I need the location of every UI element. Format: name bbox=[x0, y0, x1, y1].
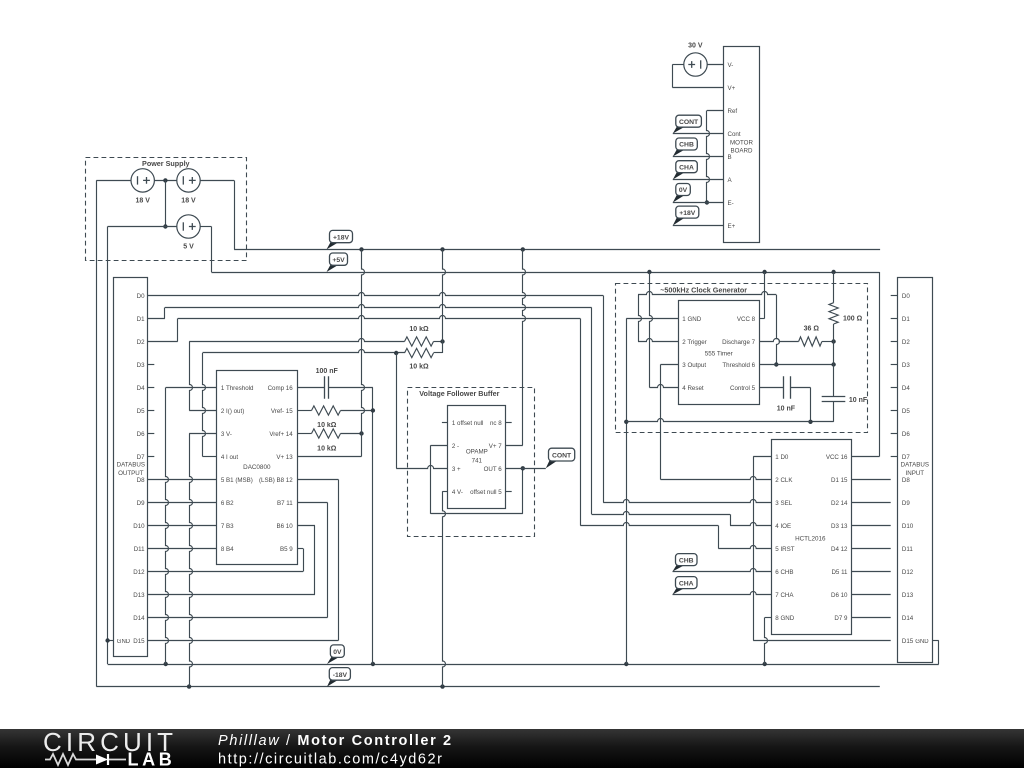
junction Threshold at cap column bbox=[831, 362, 835, 366]
svg-text:2 Trigger: 2 Trigger bbox=[682, 339, 706, 346]
svg-text:D13: D13 bbox=[133, 592, 145, 599]
junction node A at Vref- bbox=[371, 408, 375, 412]
svg-text:10 kΩ: 10 kΩ bbox=[409, 326, 429, 333]
svg-text:D8: D8 bbox=[137, 477, 145, 484]
svg-text:D0: D0 bbox=[902, 293, 910, 300]
svg-text:B7 11: B7 11 bbox=[277, 500, 293, 507]
svg-text:D4 12: D4 12 bbox=[831, 546, 848, 553]
net flag 0V bbox=[327, 657, 339, 664]
svg-text:CONT: CONT bbox=[679, 119, 699, 126]
timer U3 555 box bbox=[679, 301, 760, 405]
svg-text:CHB: CHB bbox=[679, 142, 694, 149]
pin stub opamp nc8 bbox=[506, 422, 512, 424]
svg-text:Vref- 15: Vref- 15 bbox=[271, 408, 293, 415]
svg-text:B5 9: B5 9 bbox=[280, 546, 293, 553]
svg-text:D14: D14 bbox=[133, 615, 145, 622]
svg-text:CHA: CHA bbox=[679, 164, 694, 171]
svg-text:http://circuitlab.com/c4yd62r: http://circuitlab.com/c4yd62r bbox=[218, 751, 443, 767]
resistor R1 100 Ohm vertical bbox=[829, 272, 838, 342]
clock generator dashed box bbox=[616, 284, 868, 433]
svg-text:OPAMP: OPAMP bbox=[466, 448, 488, 455]
svg-text:D14: D14 bbox=[902, 615, 914, 622]
svg-text:6 CHB: 6 CHB bbox=[775, 569, 793, 576]
svg-text:1 GND: 1 GND bbox=[682, 316, 701, 323]
wire E- pin bbox=[673, 202, 724, 204]
pin stub opamp offset null 5 bbox=[506, 491, 512, 493]
svg-text:10 kΩ: 10 kΩ bbox=[409, 364, 429, 371]
svg-text:2 CLK: 2 CLK bbox=[775, 477, 793, 484]
wire B pin bbox=[673, 156, 724, 158]
svg-text:5 IRST: 5 IRST bbox=[775, 546, 794, 553]
junction +5V taps bbox=[647, 270, 836, 274]
resistor R4 10k (Ibar out) bbox=[203, 342, 443, 358]
svg-text:DATABUS: DATABUS bbox=[901, 462, 929, 469]
svg-text:D13: D13 bbox=[902, 592, 914, 599]
wire net D2 to IRST bbox=[148, 316, 771, 549]
wire net D0 to SEL bbox=[148, 293, 771, 503]
svg-text:5 V: 5 V bbox=[183, 244, 194, 251]
svg-text:GND: GND bbox=[117, 639, 131, 645]
svg-text:0V: 0V bbox=[679, 187, 688, 194]
svg-text:D10: D10 bbox=[902, 523, 914, 530]
voltage source V2 18V bbox=[177, 169, 200, 192]
junction R3 right at +18V column bbox=[440, 339, 444, 343]
svg-text:2 -: 2 - bbox=[452, 443, 459, 450]
wire net 0V rail bbox=[108, 664, 939, 666]
svg-text:3 Output: 3 Output bbox=[682, 362, 706, 369]
label DATABUS INPUT bbox=[901, 462, 929, 477]
junction mid supply bottom bbox=[163, 224, 167, 228]
svg-text:DATABUS: DATABUS bbox=[117, 462, 145, 469]
svg-text:D2: D2 bbox=[137, 339, 145, 346]
svg-text:D10: D10 bbox=[133, 523, 145, 530]
svg-text:+18V: +18V bbox=[679, 210, 696, 217]
wire V3 left lead to left rail bbox=[108, 227, 178, 665]
svg-text:offset null 5: offset null 5 bbox=[470, 489, 502, 496]
svg-text:Power Supply: Power Supply bbox=[142, 159, 190, 168]
svg-text:-18V: -18V bbox=[333, 672, 348, 679]
label OPAMP 741 bbox=[466, 448, 488, 464]
junction Trigger link at Threshold bbox=[774, 362, 778, 366]
junction mid supply top bbox=[163, 178, 167, 182]
svg-text:E+: E+ bbox=[728, 223, 736, 230]
svg-text:D9: D9 bbox=[902, 500, 910, 507]
svg-text:D8: D8 bbox=[902, 477, 910, 484]
voltage follower dashed box bbox=[408, 388, 535, 537]
junction Vref+ to +18V column bbox=[359, 431, 363, 435]
wire 555 VCC to +5V bbox=[759, 272, 764, 319]
svg-text:10 nF: 10 nF bbox=[777, 405, 796, 412]
label DATABUS OUTPUT bbox=[117, 462, 145, 477]
svg-text:D12: D12 bbox=[133, 569, 145, 576]
wire 555 Reset to +5V bbox=[649, 272, 678, 388]
connector MOTOR BOARD box bbox=[724, 47, 760, 243]
junction opamp OUT feedback bbox=[521, 466, 525, 470]
net flag CONT (motor) bbox=[673, 127, 685, 134]
wire 555 GND to 0V bbox=[626, 319, 678, 665]
op-amp DAC U1 DAC0800 box bbox=[217, 371, 298, 565]
net flag CONT (opamp) bbox=[546, 461, 558, 469]
pin labels D0-D15 output bbox=[133, 293, 145, 645]
pin labels motor board bbox=[728, 62, 741, 230]
wire GND output to left rail bbox=[108, 640, 114, 642]
wire 555 Control to cap C3 bbox=[759, 387, 783, 389]
svg-text:BOARD: BOARD bbox=[730, 148, 753, 155]
svg-text:CONT: CONT bbox=[552, 453, 572, 460]
wire opamp OUT to CONT flag bbox=[506, 468, 546, 470]
capacitor C2 10nF vertical bbox=[822, 397, 846, 402]
pin stub opamp 1 bbox=[442, 422, 448, 424]
wire V2 right to +18V rail corner bbox=[200, 180, 234, 182]
wire 555 Trigger-Threshold link bbox=[638, 292, 780, 365]
svg-text:D5: D5 bbox=[902, 408, 910, 415]
pin labels opamp left bbox=[452, 420, 484, 496]
svg-text:CHA: CHA bbox=[679, 580, 694, 587]
pin labels 555 right bbox=[722, 316, 756, 392]
svg-text:MOTOR: MOTOR bbox=[730, 139, 753, 146]
op-amp U2 OPAMP 741 box bbox=[448, 406, 506, 509]
wire 100 Ohm column to cap C2 bbox=[833, 342, 835, 398]
junction 555 GND at bottom rail bbox=[624, 420, 628, 424]
wire node A vertical to 0V bbox=[372, 388, 374, 665]
svg-text:8 GND: 8 GND bbox=[775, 615, 794, 622]
svg-text:4 V-: 4 V- bbox=[452, 489, 463, 496]
junction Ref at E- bbox=[705, 200, 709, 204]
pin labels 555 left bbox=[682, 316, 706, 392]
pin stubs D0-D7 input bbox=[891, 296, 898, 457]
junction +18V taps bbox=[359, 247, 525, 251]
svg-text:GND: GND bbox=[915, 639, 929, 645]
voltage source V4 30V bbox=[684, 53, 707, 76]
svg-text:+18V: +18V bbox=[333, 234, 350, 241]
wire 555 Output to HCTL CLK bbox=[661, 365, 772, 480]
net flag CHB bbox=[673, 565, 685, 571]
counter U4 HCTL2016 box bbox=[772, 440, 852, 635]
junction 36 Ohm at 100 Ohm column bbox=[831, 339, 835, 343]
resistor R5 10k on Vref- bbox=[297, 406, 373, 415]
net flag CHB (motor) bbox=[673, 150, 685, 157]
svg-text:Control 5: Control 5 bbox=[730, 385, 756, 392]
svg-text:7 B3: 7 B3 bbox=[221, 523, 234, 530]
svg-text:D2 14: D2 14 bbox=[831, 500, 848, 507]
svg-text:Discharge 7: Discharge 7 bbox=[722, 339, 756, 346]
wire 555 Discharge to resistors bbox=[759, 339, 798, 342]
junction -18V rail taps bbox=[187, 684, 445, 688]
connector DATABUS INPUT box bbox=[898, 278, 933, 663]
resistor R6 10k on Vref+ bbox=[297, 429, 361, 438]
svg-text:D5: D5 bbox=[137, 408, 145, 415]
svg-text:D15: D15 bbox=[902, 638, 914, 645]
wire cap C3 to bottom rail bbox=[790, 388, 811, 422]
svg-text:10 kΩ: 10 kΩ bbox=[317, 422, 337, 429]
svg-text:D0: D0 bbox=[137, 293, 145, 300]
wire DAC pin1 Threshold to 0V bbox=[166, 388, 217, 665]
wire Threshold row bbox=[759, 364, 833, 366]
wire 30V source to V- pin bbox=[707, 64, 724, 66]
wire net D1 to IOE bbox=[148, 305, 771, 526]
wire net +5V rail bbox=[211, 227, 879, 273]
wire net -18V rail bbox=[96, 686, 879, 688]
svg-text:7 CHA: 7 CHA bbox=[775, 592, 794, 599]
svg-text:D7 9: D7 9 bbox=[834, 615, 848, 622]
svg-text:100 nF: 100 nF bbox=[316, 368, 339, 375]
svg-text:Cont: Cont bbox=[728, 131, 741, 138]
wire opamp 3+ input bbox=[396, 353, 448, 469]
pin labels D0-D15 input bbox=[902, 293, 914, 645]
svg-text:18 V: 18 V bbox=[135, 198, 150, 205]
svg-text:D7: D7 bbox=[902, 454, 910, 461]
pin stubs D3-D7 output bbox=[148, 365, 154, 457]
wire V3 right to +5V rail corner bbox=[200, 226, 211, 228]
svg-text:LAB: LAB bbox=[128, 750, 176, 768]
svg-text:Threshold 6: Threshold 6 bbox=[722, 362, 755, 369]
net flag CHA (motor) bbox=[673, 172, 685, 179]
svg-text:1 Threshold: 1 Threshold bbox=[221, 385, 254, 392]
svg-text:5 B1 (MSB): 5 B1 (MSB) bbox=[221, 477, 253, 484]
svg-text:Vref+ 14: Vref+ 14 bbox=[269, 431, 293, 438]
svg-text:0V: 0V bbox=[333, 649, 342, 656]
svg-text:2 I() out): 2 I() out) bbox=[221, 408, 244, 415]
wires D8-D11 to DAC B1-B4 bbox=[148, 480, 217, 549]
svg-text:D12: D12 bbox=[902, 569, 914, 576]
resistor R2 36 Ohm bbox=[799, 337, 822, 346]
wire V1 left to -18V rail bbox=[96, 180, 131, 686]
svg-text:D3: D3 bbox=[137, 362, 145, 369]
footer bar bbox=[0, 729, 1024, 768]
pin labels DAC right bbox=[259, 385, 293, 553]
svg-text:D4: D4 bbox=[902, 385, 910, 392]
wire CHB to HCTL bbox=[673, 569, 772, 572]
net flag +18V bbox=[327, 242, 339, 249]
wire HCTL D0 to DATABUS INPUT D15 bbox=[753, 457, 891, 641]
svg-text:D2: D2 bbox=[902, 339, 910, 346]
voltage source V3 5V bbox=[177, 215, 200, 238]
svg-text:36 Ω: 36 Ω bbox=[804, 325, 820, 332]
svg-text:D1 15: D1 15 bbox=[831, 477, 848, 484]
label MOTOR BOARD bbox=[730, 139, 753, 154]
svg-text:Comp 16: Comp 16 bbox=[268, 385, 294, 392]
wire DAC pin2 node to resistor R3 bbox=[189, 342, 216, 411]
svg-text:10 kΩ: 10 kΩ bbox=[317, 446, 337, 453]
wire cap C2 bottom to rail bbox=[811, 401, 834, 421]
svg-text:D1: D1 bbox=[137, 316, 145, 323]
net flag CHA bbox=[673, 588, 685, 594]
svg-text:DAC0800: DAC0800 bbox=[243, 464, 271, 471]
capacitor C1 100nF on Comp bbox=[297, 376, 373, 399]
svg-text:741: 741 bbox=[472, 457, 483, 464]
svg-text:D6: D6 bbox=[137, 431, 145, 438]
svg-text:D1: D1 bbox=[902, 316, 910, 323]
svg-text:8 B4: 8 B4 bbox=[221, 546, 234, 553]
wire D13 wrap to DAC B6 bbox=[148, 526, 315, 595]
svg-text:E-: E- bbox=[728, 200, 734, 207]
svg-text:Philllaw / Motor Controller 2: Philllaw / Motor Controller 2 bbox=[218, 733, 453, 749]
svg-text:10 nF: 10 nF bbox=[849, 397, 868, 404]
svg-text:D9: D9 bbox=[137, 500, 145, 507]
junction GND output bbox=[105, 638, 109, 642]
wire DAC pin4 node to resistor R4 bbox=[203, 353, 217, 457]
svg-text:555 Timer: 555 Timer bbox=[705, 351, 733, 358]
wire opamp feedback loop bbox=[431, 445, 523, 514]
net flag +5V bbox=[327, 265, 339, 272]
svg-text:VCC 8: VCC 8 bbox=[737, 316, 756, 323]
svg-text:1 offset null: 1 offset null bbox=[452, 420, 484, 427]
wire Ref to E- node bbox=[707, 111, 724, 203]
svg-text:~500kHz Clock Generator: ~500kHz Clock Generator bbox=[660, 285, 747, 294]
svg-text:D11: D11 bbox=[902, 546, 913, 553]
svg-text:D15: D15 bbox=[133, 638, 145, 645]
svg-text:4 I out: 4 I out bbox=[221, 454, 238, 461]
net flag -18V bbox=[327, 680, 338, 687]
wire E+ pin bbox=[673, 225, 724, 227]
wire CHA to HCTL bbox=[673, 592, 772, 595]
wire opamp V- to -18V rail bbox=[443, 491, 448, 686]
svg-text:1 D0: 1 D0 bbox=[775, 454, 789, 461]
wire opamp V+ to +18V rail bbox=[506, 249, 526, 445]
svg-text:B6 10: B6 10 bbox=[277, 523, 294, 530]
wire +18V column upper segment bbox=[443, 249, 446, 341]
svg-text:V-: V- bbox=[728, 62, 734, 69]
svg-text:HCTL2016: HCTL2016 bbox=[795, 535, 826, 542]
svg-text:D3: D3 bbox=[902, 362, 910, 369]
svg-text:D3 13: D3 13 bbox=[831, 523, 848, 530]
svg-text:B: B bbox=[728, 154, 732, 161]
svg-text:30 V: 30 V bbox=[688, 42, 703, 49]
wire D15 wrap to DAC B8 bbox=[148, 480, 339, 641]
wire HCTL GND to 0V bbox=[765, 618, 772, 665]
wire +18V column to DAC V+ bbox=[297, 249, 364, 456]
svg-text:CHB: CHB bbox=[679, 557, 694, 564]
wire supply midpoint vertical bbox=[165, 180, 167, 226]
pin labels opamp right bbox=[470, 420, 502, 496]
svg-text:D11: D11 bbox=[134, 546, 145, 553]
svg-text:100 Ω: 100 Ω bbox=[843, 316, 863, 323]
junction C3 at bottom rail bbox=[808, 420, 812, 424]
pin labels DAC left bbox=[221, 385, 254, 553]
wire 36 Ohm right lead bbox=[822, 341, 834, 343]
wire 30V source to V+ pin bbox=[672, 65, 723, 88]
wire D12 wrap to DAC B5 bbox=[148, 549, 304, 572]
svg-text:+5V: +5V bbox=[332, 257, 345, 264]
wire HCTL VCC to +5V bbox=[852, 272, 880, 457]
svg-text:OUTPUT: OUTPUT bbox=[118, 470, 144, 477]
svg-text:D6: D6 bbox=[902, 431, 910, 438]
connector DATABUS OUTPUT box bbox=[114, 278, 148, 657]
svg-text:(LSB) B8 12: (LSB) B8 12 bbox=[259, 477, 293, 484]
svg-text:V+: V+ bbox=[728, 85, 736, 92]
svg-text:4 Reset: 4 Reset bbox=[682, 385, 704, 392]
svg-text:3 +: 3 + bbox=[452, 466, 461, 473]
wires HCTL D1-D7 to DATABUS INPUT bbox=[852, 480, 891, 618]
resistor R3 10k (Iout) bbox=[189, 337, 442, 346]
net flag 0V (motor) bbox=[673, 195, 685, 203]
pin labels HCTL left bbox=[775, 454, 794, 622]
svg-text:D6 10: D6 10 bbox=[831, 592, 848, 599]
voltage source V1 18V bbox=[131, 169, 154, 192]
capacitor C3 10nF on Control bbox=[784, 376, 791, 399]
wire clock bottom rail bbox=[626, 419, 810, 422]
svg-text:nc 8: nc 8 bbox=[490, 420, 502, 427]
wire GND input wrap to 0V rail bbox=[932, 641, 939, 665]
svg-text:D4: D4 bbox=[137, 385, 145, 392]
wire Cont pin bbox=[673, 133, 724, 135]
wire D14 wrap to DAC B7 bbox=[148, 503, 328, 618]
pin labels HCTL right bbox=[826, 454, 848, 622]
svg-text:Ref: Ref bbox=[728, 108, 738, 115]
svg-text:Voltage Follower Buffer: Voltage Follower Buffer bbox=[419, 389, 499, 398]
svg-text:18 V: 18 V bbox=[181, 198, 196, 205]
svg-text:OUT 6: OUT 6 bbox=[484, 466, 503, 473]
wire V1-V2 node bbox=[154, 180, 177, 182]
wire A pin bbox=[673, 179, 724, 181]
svg-text:3 SEL: 3 SEL bbox=[775, 500, 792, 507]
junction 0V rail taps bbox=[164, 662, 767, 666]
power supply dashed box bbox=[86, 158, 247, 261]
svg-text:D5 11: D5 11 bbox=[831, 569, 848, 576]
svg-text:3 V-: 3 V- bbox=[221, 431, 232, 438]
svg-text:D7: D7 bbox=[137, 454, 145, 461]
svg-text:V+ 13: V+ 13 bbox=[276, 454, 293, 461]
svg-text:VCC 16: VCC 16 bbox=[826, 454, 848, 461]
svg-text:4 IOE: 4 IOE bbox=[775, 523, 791, 530]
svg-text:V+ 7: V+ 7 bbox=[489, 443, 502, 450]
svg-text:INPUT: INPUT bbox=[906, 470, 925, 477]
net flag +18V (motor) bbox=[673, 218, 685, 226]
wire DAC pin3 V- to -18V rail bbox=[189, 434, 216, 687]
svg-text:6 B2: 6 B2 bbox=[221, 500, 234, 507]
junction R4 left node to opamp bbox=[394, 351, 398, 355]
wire net +18V rail bbox=[234, 180, 880, 249]
